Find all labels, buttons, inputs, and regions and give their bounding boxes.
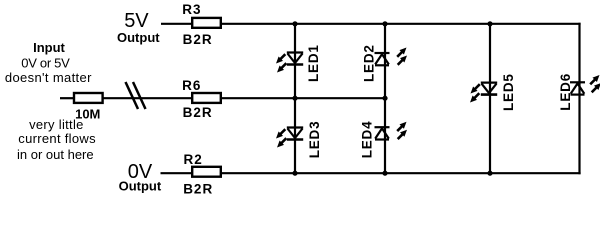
svg-text:doesn't matter: doesn't matter <box>5 70 92 85</box>
LED4 <box>375 127 390 139</box>
wire input middle segment <box>103 97 192 99</box>
svg-text:LED3: LED3 <box>307 121 322 159</box>
junction dot top LED5 column <box>487 21 492 26</box>
wire input left segment <box>60 97 74 99</box>
svg-text:very little: very little <box>29 117 84 132</box>
junction dot bottom LED5 column <box>487 171 492 176</box>
svg-text:LED4: LED4 <box>360 121 375 159</box>
break symbol on input wire <box>126 82 139 109</box>
junction dot bottom LED4 column <box>382 171 387 176</box>
LED2 <box>375 53 390 65</box>
wire LED2/LED4 column <box>384 24 386 173</box>
wire right vertical <box>578 23 580 175</box>
svg-text:Output: Output <box>117 30 160 45</box>
resistor R6 <box>192 93 221 103</box>
svg-text:B2R: B2R <box>183 105 213 120</box>
svg-text:LED6: LED6 <box>558 73 573 111</box>
svg-text:current flows: current flows <box>18 131 96 146</box>
junction dot top LED2 column <box>382 21 387 26</box>
svg-text:B2R: B2R <box>183 32 213 47</box>
svg-text:B2R: B2R <box>183 181 213 196</box>
junction dot bottom LED3 column <box>292 171 297 176</box>
wire LED5 column <box>489 24 491 173</box>
resistor 10M <box>74 93 103 103</box>
resistor R2 <box>192 167 221 177</box>
wire top rail right segment <box>221 23 581 25</box>
svg-text:R6: R6 <box>182 78 201 93</box>
wire bottom rail right segment <box>221 172 581 174</box>
svg-text:in or out here: in or out here <box>17 147 94 162</box>
svg-text:LED5: LED5 <box>501 73 516 111</box>
wire middle rail <box>221 97 385 99</box>
junction dot middle LED1 column <box>292 96 297 101</box>
svg-text:R3: R3 <box>182 2 201 17</box>
wire bottom rail left segment <box>161 172 193 174</box>
svg-text:R2: R2 <box>184 152 203 167</box>
junction dot middle LED2 column <box>382 96 387 101</box>
svg-text:LED2: LED2 <box>362 44 377 82</box>
svg-text:0V or 5V: 0V or 5V <box>21 56 70 71</box>
wire LED1/LED3 column <box>294 24 296 173</box>
LED5 <box>481 83 497 95</box>
wire top rail left segment <box>161 23 192 25</box>
LED1 <box>287 53 303 65</box>
LED6 <box>570 82 585 94</box>
LED3 <box>287 128 303 140</box>
svg-text:LED1: LED1 <box>306 44 321 82</box>
svg-text:Input: Input <box>33 40 65 55</box>
svg-text:5V: 5V <box>124 10 149 32</box>
resistor R3 <box>192 18 221 28</box>
svg-text:Output: Output <box>119 178 162 193</box>
junction dot top LED1 column <box>292 21 297 26</box>
